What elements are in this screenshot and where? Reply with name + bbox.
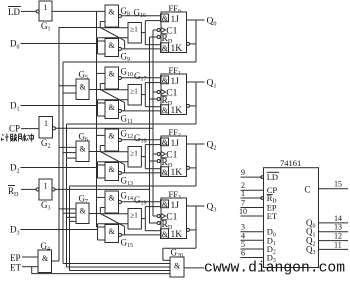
NAND gate G8 <box>105 5 119 27</box>
wire crossover diagonal <box>100 28 124 41</box>
svg-text:≥1: ≥1 <box>130 149 138 158</box>
svg-text:1K: 1K <box>171 106 183 116</box>
input RD-bar label <box>8 186 19 198</box>
svg-text:1J: 1J <box>171 201 180 211</box>
74161 pin 2 wire <box>241 189 264 191</box>
svg-text:10: 10 <box>239 207 247 216</box>
G6 label <box>79 132 89 144</box>
flip-flop FF3 <box>161 198 187 239</box>
74161 pin 9 wire <box>241 176 263 178</box>
74161 pin label C <box>305 185 311 195</box>
wire to lower NAND bottom input <box>98 115 106 117</box>
74161 pin 15 wire <box>319 188 349 190</box>
inverter G3 <box>39 179 52 200</box>
input D1 label <box>10 101 20 113</box>
wire crossover diagonal <box>100 214 124 227</box>
svg-text:&: & <box>162 106 169 115</box>
wire RD to G3 <box>21 188 36 190</box>
74161 pin 9 bubble <box>261 176 264 179</box>
FF0 Qbar output bubble <box>187 42 190 45</box>
74161 pin label D3 <box>267 253 276 265</box>
G9 label <box>121 52 131 64</box>
G2 output bubble <box>52 127 55 130</box>
feedback vertical <box>195 144 197 186</box>
RD rail vertical <box>149 37 151 224</box>
74161 pin 2 number <box>241 181 245 190</box>
clock dynamic indicator <box>161 214 165 219</box>
wire data vertical <box>97 224 99 240</box>
NAND gate G14 <box>105 191 119 213</box>
overline for RD <box>8 185 15 187</box>
svg-text:1K: 1K <box>171 230 183 240</box>
74161 pin label D2 <box>267 244 276 256</box>
FF1 Qbar output bubble <box>187 104 190 107</box>
svg-text:&: & <box>80 207 87 216</box>
Q0 feedback rail <box>62 62 64 264</box>
svg-text:4: 4 <box>241 231 245 240</box>
G16 label <box>134 8 147 20</box>
OR gate G16 <box>128 23 141 44</box>
overline 74161 LD <box>267 171 279 173</box>
wire G7 input 3 <box>67 216 77 218</box>
svg-text:G14: G14 <box>121 191 134 203</box>
wire CP to G2 <box>21 128 39 130</box>
G15 label <box>121 238 134 250</box>
wire ET to G4 <box>22 266 38 268</box>
wire load stub to G12 <box>97 134 106 136</box>
wire G2 output to CP rail <box>55 127 153 129</box>
74161 pin 11 number <box>334 240 342 249</box>
G13 output bubble <box>118 171 121 174</box>
FF2 Qbar output bubble <box>187 166 190 169</box>
74161 pin 6 wire <box>241 257 264 259</box>
input CP label <box>9 124 20 134</box>
74161 pin 5 number <box>241 240 245 249</box>
wire load stub to lower NAND <box>97 102 106 104</box>
svg-text:cwww.diangon.com: cwww.diangon.com <box>204 261 345 277</box>
wire G6 input 1 <box>59 146 76 148</box>
74161 IC body <box>264 168 319 268</box>
svg-text:FF3: FF3 <box>169 189 181 201</box>
wire G7 input 2 <box>63 212 76 214</box>
wire CP stub to C1 <box>153 91 157 93</box>
inverter G1 <box>39 1 52 21</box>
74161 pin 13 number <box>334 223 342 232</box>
clock input bubble <box>157 152 160 155</box>
reset RD label <box>162 96 173 107</box>
wire crossover diagonal <box>100 90 124 103</box>
G15 output bubble <box>118 233 121 236</box>
1K AND box <box>161 105 169 115</box>
wire lower NAND output to 1K <box>121 110 160 112</box>
svg-text:&: & <box>80 145 87 154</box>
OR gate G18 <box>128 147 141 168</box>
feedback vertical <box>195 20 197 62</box>
enable rail vertical <box>58 27 60 261</box>
NAND gate G15 <box>105 225 119 243</box>
load rail vertical <box>96 11 98 227</box>
svg-text:C1: C1 <box>166 26 177 36</box>
feedback horizontal to rail <box>67 123 197 125</box>
FF1 label <box>169 65 181 77</box>
svg-text:LD: LD <box>8 7 20 17</box>
Qbar stub <box>190 43 197 45</box>
G20 label <box>171 248 184 260</box>
svg-text:Q2: Q2 <box>207 141 217 152</box>
74161 pin label Q3 <box>306 244 316 256</box>
feedback vertical <box>195 82 197 124</box>
clock input bubble <box>157 28 160 31</box>
AND gate G6 <box>76 141 89 162</box>
svg-text:G6: G6 <box>79 132 89 144</box>
svg-text:G10: G10 <box>121 67 134 79</box>
svg-text:CP: CP <box>9 124 20 134</box>
wire upper NAND output to 1J <box>121 139 160 141</box>
wire enable net to OR top input <box>100 213 128 215</box>
wire lower NAND output to 1K <box>121 172 160 174</box>
wire RD stub to reset <box>150 98 158 100</box>
inverter G2 <box>39 117 53 139</box>
svg-text:D3: D3 <box>10 225 20 237</box>
svg-text:74161: 74161 <box>280 158 301 168</box>
svg-text:&: & <box>162 230 169 239</box>
74161 pin 7 wire <box>241 207 264 209</box>
svg-text:14: 14 <box>334 214 342 223</box>
G13 label <box>121 176 134 188</box>
svg-text:&: & <box>109 132 116 141</box>
svg-text:&: & <box>162 14 169 23</box>
1J AND box <box>161 76 169 84</box>
svg-text:1J: 1J <box>171 139 180 149</box>
74161 pin 5 wire <box>241 248 264 250</box>
svg-text:C1: C1 <box>166 88 177 98</box>
wire step to NAND lower input <box>99 208 101 214</box>
FF3 label <box>169 189 181 201</box>
svg-text:FF2: FF2 <box>169 127 181 139</box>
input EP label <box>10 253 21 263</box>
svg-text:&: & <box>162 138 169 147</box>
wire upper NAND output to 1J <box>121 77 160 79</box>
74161 pin label CP <box>267 185 278 195</box>
74161 pin 7 number <box>241 199 245 208</box>
output Q0 label <box>207 17 217 28</box>
svg-text:&: & <box>162 44 169 53</box>
rail to G20 input <box>67 266 171 268</box>
wire OR gate output <box>141 32 145 34</box>
Q3 feedback to G20 <box>163 247 196 249</box>
wire load stub to lower NAND <box>97 226 106 228</box>
clock dynamic indicator <box>161 90 165 95</box>
wire G5 input 2 <box>63 92 76 94</box>
svg-text:FF0: FF0 <box>169 3 181 15</box>
CP rail vertical <box>152 30 154 216</box>
wire OR gate output <box>141 218 145 220</box>
svg-text:≥1: ≥1 <box>130 87 138 96</box>
reset input bubble <box>157 35 160 38</box>
G2 label <box>41 138 51 150</box>
svg-text:C1: C1 <box>166 212 177 222</box>
wire to lower NAND bottom input <box>98 177 106 179</box>
wire G1 output to G8 <box>52 10 105 12</box>
1K AND box <box>161 229 169 239</box>
wire G6 input 3 <box>67 157 77 159</box>
G11 output bubble <box>118 109 121 112</box>
74161 pin 3 number <box>241 223 245 232</box>
G17 label <box>134 71 147 83</box>
svg-text:G12: G12 <box>121 129 134 141</box>
svg-text:≥1: ≥1 <box>130 211 138 220</box>
74161 pin 10 number <box>239 207 247 216</box>
74161 pin label D1 <box>267 235 276 247</box>
G3 input bubble <box>36 188 39 191</box>
wire step to NAND lower input <box>99 146 101 152</box>
1K AND box <box>161 43 169 53</box>
wire G3 output to RD rail <box>55 188 150 190</box>
chinese caption ji-shu-mai-chong <box>1 134 33 142</box>
wire crossover diagonal <box>100 152 124 165</box>
G3 output bubble <box>52 188 55 191</box>
clock input bubble <box>157 214 160 217</box>
wire enable net to OR top input <box>100 27 128 29</box>
svg-text:&: & <box>109 70 116 79</box>
G1 input bubble <box>36 10 39 13</box>
svg-text:D2: D2 <box>10 163 20 175</box>
svg-text:1: 1 <box>241 189 245 198</box>
wire OR bottom input <box>98 223 129 225</box>
OR gate G19 <box>128 209 141 230</box>
74161 pin 13 wire <box>319 231 349 233</box>
feedback horizontal to rail <box>70 185 197 187</box>
Q1 feedback rail <box>66 124 68 267</box>
wire data vertical <box>97 162 99 178</box>
wire upper NAND output to 1J <box>121 15 160 17</box>
svg-text:6: 6 <box>241 249 245 258</box>
74161 pin 12 wire <box>319 240 349 242</box>
1K AND box <box>161 167 169 177</box>
74161 pin label Q2 <box>306 236 316 248</box>
reset input bubble <box>157 97 160 100</box>
G10 output bubble <box>118 76 121 79</box>
feedback horizontal to rail <box>63 61 196 63</box>
Qbar stub <box>190 105 197 107</box>
svg-text:&: & <box>174 262 181 271</box>
AND gate G4 <box>38 250 52 273</box>
svg-text:G17: G17 <box>134 71 147 83</box>
G8 label <box>121 6 131 18</box>
svg-text:1K: 1K <box>171 168 183 178</box>
FF0 Q output wire <box>187 19 205 21</box>
74161 pin 10 wire <box>241 215 264 217</box>
flip-flop FF1 <box>161 74 187 115</box>
74161 pin 6 number <box>241 249 245 258</box>
input ET label <box>10 263 21 273</box>
AND gate G20 <box>170 257 184 277</box>
wire OR gate output <box>141 94 145 96</box>
74161 pin 4 wire <box>241 239 264 241</box>
FF3 Qbar output bubble <box>187 228 190 231</box>
rail to G20 input <box>70 270 171 272</box>
output Q2 label <box>207 141 217 152</box>
wire D2 <box>21 167 98 169</box>
input D2 label <box>10 163 20 175</box>
svg-text:G7: G7 <box>79 194 89 206</box>
wire to lower NAND bottom input <box>98 53 106 55</box>
svg-text:&: & <box>109 41 116 50</box>
OR gate G17 <box>128 85 141 106</box>
svg-text:1J: 1J <box>171 77 180 87</box>
svg-text:&: & <box>109 194 116 203</box>
wire step to NAND lower input <box>99 22 101 28</box>
FF2 label <box>169 127 181 139</box>
74161 pin 1 bubble <box>261 197 264 200</box>
G12 output bubble <box>118 138 121 141</box>
Q2 feedback rail <box>69 186 71 271</box>
svg-text:15: 15 <box>334 180 342 189</box>
clock dynamic indicator <box>161 152 165 157</box>
wire step to NAND lower input <box>99 84 101 90</box>
wire D3 <box>21 229 98 231</box>
wire data vertical <box>97 38 99 54</box>
wire LD to G1 <box>21 10 36 12</box>
svg-text:FF1: FF1 <box>169 65 181 77</box>
svg-text:G1: G1 <box>41 21 51 33</box>
wire load stub to G14 <box>97 196 106 198</box>
wire OR bottom input <box>98 161 129 163</box>
svg-text:&: & <box>162 200 169 209</box>
wire upper NAND output to 1J <box>121 201 160 203</box>
svg-text:D1: D1 <box>10 101 20 113</box>
74161 pin label EP <box>267 203 277 213</box>
svg-text:≥1: ≥1 <box>130 25 138 34</box>
G3 label <box>41 200 51 212</box>
svg-text:&: & <box>109 8 116 17</box>
wire G20 carry output <box>184 267 204 269</box>
svg-text:&: & <box>42 254 49 263</box>
wire lower NAND output to 1K <box>121 48 160 50</box>
svg-text:G4: G4 <box>41 241 51 253</box>
wire RD stub to reset <box>150 36 158 38</box>
AND gate G7 <box>76 203 89 224</box>
svg-text:11: 11 <box>334 240 342 249</box>
svg-text:1J: 1J <box>171 15 180 25</box>
wire to lower NAND bottom input <box>98 239 106 241</box>
1J AND box <box>161 200 169 208</box>
wire EP to G4 <box>22 256 38 258</box>
svg-text:1K: 1K <box>171 44 183 54</box>
G8 output bubble <box>118 14 121 17</box>
74161 pin label D0 <box>267 227 276 239</box>
G1 label <box>41 21 51 33</box>
FF2 Q output wire <box>187 143 205 145</box>
svg-text:1: 1 <box>44 119 48 128</box>
svg-text:G9: G9 <box>121 52 131 64</box>
feedback vertical <box>195 206 197 248</box>
svg-text:G13: G13 <box>121 176 134 188</box>
input D3 label <box>10 225 20 237</box>
reset RD label <box>162 158 173 169</box>
wire lower NAND output to 1K <box>121 234 160 236</box>
svg-text:&: & <box>162 76 169 85</box>
input D0 label <box>10 39 20 51</box>
wire G7 input 1 <box>59 208 76 210</box>
G14 label <box>121 191 134 203</box>
overline 74161 RD <box>267 194 273 196</box>
G7 label <box>79 194 89 206</box>
wire load stub to lower NAND <box>97 40 106 42</box>
Qbar stub <box>190 167 197 169</box>
wire enable net horizontal <box>89 151 100 153</box>
svg-text:&: & <box>109 103 116 112</box>
wire crossover vertical to NAND output <box>124 41 126 49</box>
svg-text:12: 12 <box>334 232 342 241</box>
wire D1 <box>21 105 98 107</box>
74161 pin 14 number <box>334 214 342 223</box>
wire G6 input 2 <box>63 152 76 154</box>
74161 part number label <box>280 158 301 168</box>
svg-text:G18: G18 <box>134 133 147 145</box>
watermark diangon.com <box>204 261 345 277</box>
wire D0 <box>21 43 98 45</box>
wire OR bottom input <box>98 99 129 101</box>
svg-text:D0: D0 <box>10 39 20 51</box>
G11 label <box>121 114 133 126</box>
svg-text:&: & <box>80 83 87 92</box>
clock input bubble <box>157 90 160 93</box>
svg-text:9: 9 <box>241 168 245 177</box>
svg-text:ET: ET <box>10 263 21 273</box>
G12 label <box>121 129 134 141</box>
G5 label <box>79 70 89 82</box>
wire enable net to OR top input <box>100 89 128 91</box>
svg-text:Q3: Q3 <box>207 203 217 214</box>
wire enable net horizontal <box>89 213 100 215</box>
svg-text:LD: LD <box>267 172 278 182</box>
FF3 Q output wire <box>187 205 205 207</box>
svg-text:ET: ET <box>267 211 278 221</box>
svg-text:&: & <box>162 168 169 177</box>
wire CP stub to C1 <box>153 153 157 155</box>
reset RD label <box>162 220 173 231</box>
svg-text:G19: G19 <box>134 195 147 207</box>
wire RD stub to reset <box>150 222 158 224</box>
wire enable net horizontal <box>59 27 100 29</box>
svg-text:&: & <box>109 227 116 236</box>
wire crossover vertical to NAND output <box>124 165 126 173</box>
reset RD label <box>162 34 173 45</box>
74161 pin 11 wire <box>319 248 349 250</box>
output Q1 label <box>207 79 217 90</box>
wire CP stub to C1 <box>153 29 157 31</box>
FF0 label <box>169 3 181 15</box>
G9 output bubble <box>118 47 121 50</box>
svg-text:EP: EP <box>10 253 21 263</box>
NAND gate G13 <box>105 163 119 181</box>
74161 pin label RD <box>267 193 277 205</box>
Qbar stub <box>190 229 197 231</box>
wire load stub to G10 <box>97 72 106 74</box>
wire OR gate output <box>141 156 145 158</box>
1J AND box <box>161 14 169 22</box>
NAND gate G11 <box>105 101 119 119</box>
svg-text:Q0: Q0 <box>207 17 217 28</box>
reset input bubble <box>157 159 160 162</box>
74161 pin 15 number <box>334 180 342 189</box>
wire ET branch to bottom rail <box>31 267 33 274</box>
74161 pin label Q0 <box>306 218 316 230</box>
NAND gate G9 <box>105 39 119 57</box>
input LD-bar label <box>8 7 20 17</box>
svg-text:G15: G15 <box>121 238 134 250</box>
